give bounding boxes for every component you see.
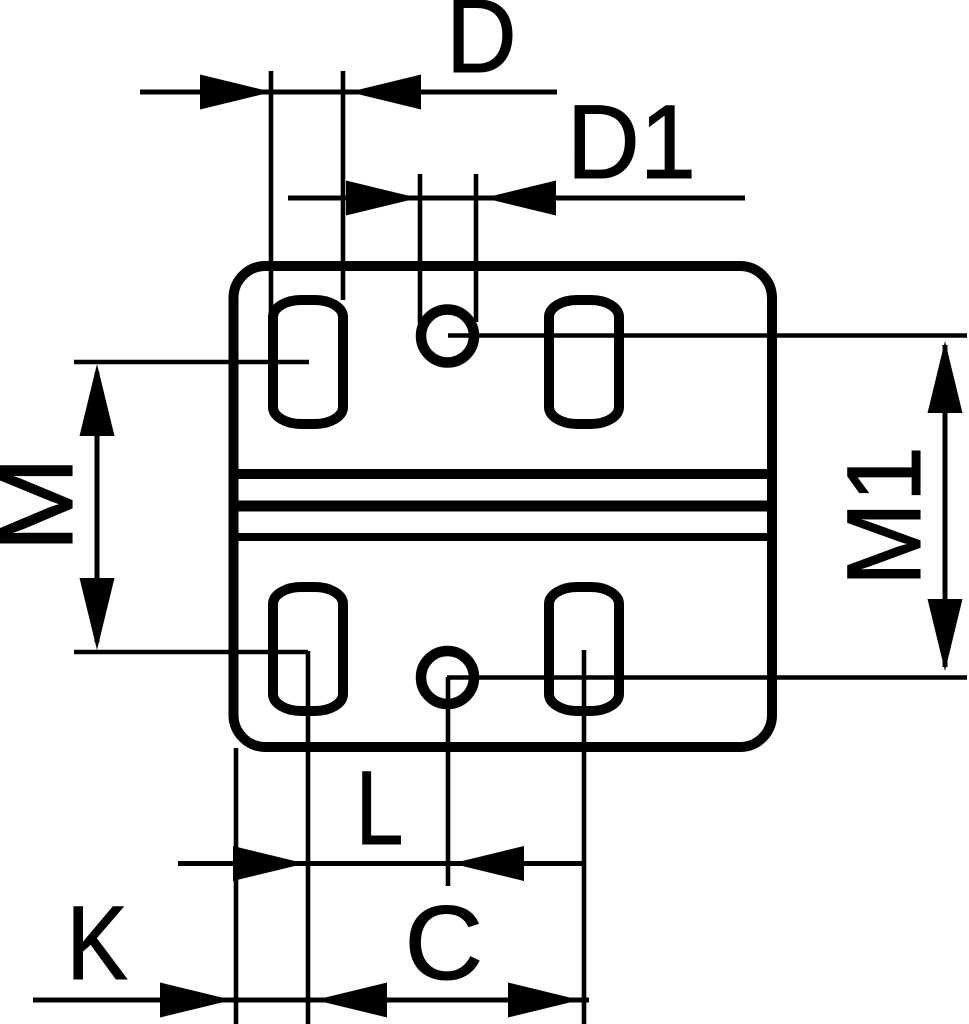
dimension M arrow up [80,364,115,436]
slot top-left [273,300,343,424]
extension line below part left edge [234,748,239,1024]
groove line 2 [238,501,767,512]
dimension M1 line [943,345,948,667]
dimension D1 extension line right [474,174,479,322]
part outline [234,266,773,747]
dimension M extension line bottom [74,650,308,655]
svg-text:D: D [446,0,517,95]
dimension M arrow down [80,578,115,650]
label C [405,884,484,1002]
dimension D1 arrow left [346,181,418,216]
svg-text:C: C [405,884,484,1002]
svg-text:K: K [66,885,127,1002]
slot bottom-right [549,587,619,711]
dimension D arrow right [349,75,421,110]
dimension L arrow left [233,846,305,881]
label M1 (rotated) [825,446,942,586]
dimension K arrow [160,983,232,1018]
groove line 1 [238,469,767,479]
dimension D1 arrow right [484,181,556,216]
hole top [421,310,474,363]
dimension L arrow right [452,846,524,881]
dimension D line [140,90,557,95]
dimension C arrow right [508,983,580,1018]
slot top-right [549,300,619,424]
groove line 3 [238,533,767,541]
label D [446,0,517,95]
svg-text:L: L [356,750,404,867]
hole bottom [421,651,474,704]
svg-text:M: M [0,456,95,552]
label D1 [567,83,696,200]
dimension M1 arrow up [928,341,963,413]
dimension D extension line right [341,71,346,300]
dimension D1 line [288,196,745,201]
dimension L line [178,861,584,866]
dimension M1 extension line bottom [447,675,967,680]
svg-text:D1: D1 [567,83,696,200]
dimension D arrow left [200,75,272,110]
slot bottom-left [273,587,343,711]
svg-text:M1: M1 [825,446,942,586]
dimension K C line [33,998,589,1003]
label K [66,885,127,1002]
dimension M line [95,372,100,642]
dimension C arrow left [315,983,387,1018]
dimension D extension line left [269,71,274,362]
label M (rotated) [0,456,95,552]
label L [356,750,404,867]
extension line below hole bottom center [446,677,451,886]
extension line below slot bottom-left center [306,651,311,1024]
extension line below slot bottom-right center [582,650,587,1024]
dimension M1 extension line top [448,333,967,338]
dimension D1 extension line left [418,174,423,324]
dimension M extension line top [74,360,309,365]
dimension M1 arrow down [928,599,963,671]
